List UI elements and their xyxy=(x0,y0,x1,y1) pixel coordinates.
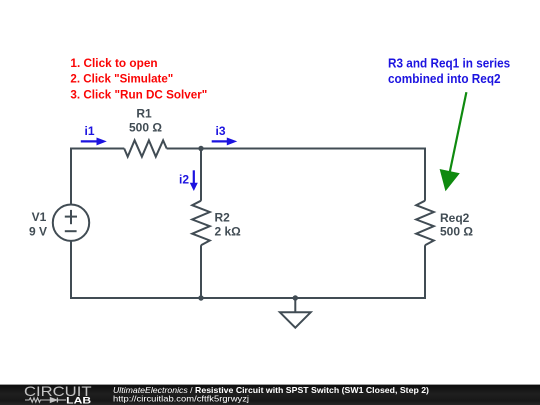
svg-text:R1: R1 xyxy=(136,107,152,121)
current arrow i2 xyxy=(191,170,197,190)
current arrow i1 xyxy=(81,138,106,144)
wire left upper xyxy=(70,148,72,205)
ground symbol xyxy=(280,298,311,328)
resistor R1 body xyxy=(124,140,167,156)
svg-text:combined into Req2: combined into Req2 xyxy=(388,71,501,86)
svg-text:LAB: LAB xyxy=(66,396,92,405)
wire top right xyxy=(167,148,425,150)
logo diode xyxy=(50,398,66,403)
svg-text:i3: i3 xyxy=(215,124,225,138)
V1 minus sign xyxy=(65,230,77,232)
footer bar xyxy=(0,385,540,405)
node junction at R2 bottom xyxy=(198,295,203,300)
svg-text:2. Click "Simulate": 2. Click "Simulate" xyxy=(70,72,173,86)
svg-text:Req2: Req2 xyxy=(440,211,470,225)
wire left lower xyxy=(70,241,72,299)
wire middle lower xyxy=(200,245,202,298)
voltage source V1 circle xyxy=(53,205,89,241)
wire middle upper xyxy=(200,149,202,201)
svg-text:V1: V1 xyxy=(32,210,47,224)
svg-text:1. Click to open: 1. Click to open xyxy=(70,56,157,70)
svg-text:http://circuitlab.com/cftfk5rg: http://circuitlab.com/cftfk5rgrwyzj xyxy=(113,394,249,404)
wire right upper xyxy=(424,148,426,201)
node junction at R1 right / R2 top xyxy=(198,146,203,151)
annotation blue note xyxy=(388,55,510,86)
resistor R2 body xyxy=(192,201,210,246)
svg-text:500 Ω: 500 Ω xyxy=(129,120,162,134)
svg-text:9 V: 9 V xyxy=(29,225,47,239)
annotation red instructions xyxy=(70,56,207,101)
svg-text:2 kΩ: 2 kΩ xyxy=(215,225,242,239)
wire right lower xyxy=(424,245,426,298)
current arrow i3 xyxy=(212,138,236,144)
wire top left xyxy=(71,148,124,150)
svg-text:R3 and Req1 in series: R3 and Req1 in series xyxy=(388,55,510,70)
logo resistor xyxy=(25,398,50,402)
svg-text:3. Click "Run DC Solver": 3. Click "Run DC Solver" xyxy=(70,87,207,101)
V1 plus sign xyxy=(65,210,77,224)
wire bottom xyxy=(70,297,426,299)
green annotation arrow xyxy=(440,92,466,190)
node junction at ground xyxy=(293,295,298,300)
svg-text:R2: R2 xyxy=(215,211,231,225)
svg-text:i1: i1 xyxy=(84,124,94,138)
resistor Req2 body xyxy=(416,201,434,246)
svg-text:i2: i2 xyxy=(179,172,189,186)
svg-text:500 Ω: 500 Ω xyxy=(440,224,473,238)
